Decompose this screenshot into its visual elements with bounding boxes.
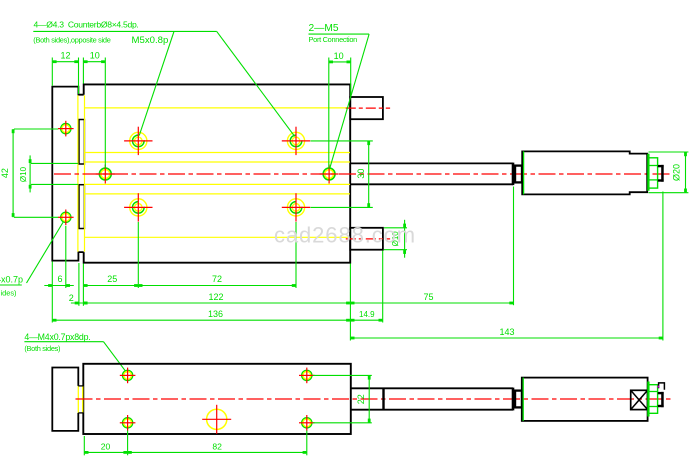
- svg-text:42: 42: [0, 168, 10, 178]
- ext v x513.5 bottom: [513, 187, 515, 306]
- boss bottom centerline: [346, 238, 390, 240]
- ext v x83.4 bottom: [82, 264, 84, 306]
- wrench flat diagonal 2: [631, 390, 648, 409]
- ext h 22 bottom: [313, 422, 372, 424]
- ext v x350 top: [350, 58, 352, 97]
- hidden edge yellow vertical right: [84, 95, 86, 252]
- dimension 10 left: [83, 61, 105, 63]
- dimension 20: [84, 451, 127, 453]
- lower rod top edge: [351, 387, 513, 389]
- ext h 42 top: [14, 128, 58, 130]
- hidden line y194: [85, 193, 351, 195]
- svg-text:75: 75: [423, 292, 433, 302]
- label underline x0.7p: [0, 284, 22, 286]
- label underline 1: [33, 30, 216, 32]
- svg-text:cad2688.com: cad2688.com: [274, 223, 416, 248]
- lower centerline: [76, 398, 673, 400]
- ext h 42 bottom: [14, 216, 58, 218]
- lower label underline: [24, 341, 103, 343]
- dimension 25: [83, 285, 138, 287]
- ext v x65 bottom: [65, 226, 67, 288]
- svg-text:136: 136: [208, 309, 223, 319]
- dimension 82: [128, 451, 307, 453]
- dimension 12: [52, 61, 78, 63]
- ext v x382.7 bottom: [382, 251, 384, 323]
- boss top: [350, 97, 383, 119]
- dimension dia10 boss: [404, 220, 406, 258]
- lower slot yellow left: [77, 386, 79, 413]
- ext v x52 top: [51, 58, 53, 86]
- svg-text:ides): ides): [1, 288, 17, 297]
- ext h boss d10 top: [384, 227, 407, 229]
- upper view plate outline: [52, 87, 83, 261]
- dimension 136: [52, 319, 350, 321]
- ext h 30 bottom: [311, 206, 373, 208]
- M5 counterbore hole A: [130, 132, 147, 149]
- ext v x78 top: [78, 58, 80, 94]
- upper view body outline: [84, 84, 351, 262]
- svg-text:–x0.7p: –x0.7p: [0, 275, 23, 285]
- dimension 2: [71, 302, 91, 304]
- M4 hole A: [123, 370, 133, 380]
- M5 port hole left: [99, 168, 111, 180]
- svg-text:10: 10: [90, 51, 100, 61]
- svg-text:M5x0.8p: M5x0.8p: [132, 35, 169, 46]
- wrench flat diagonal 1: [631, 390, 648, 409]
- M5 port hole right: [323, 168, 335, 180]
- lower tip vertical bar: [661, 392, 664, 407]
- lower coupling box: [513, 391, 522, 408]
- nut facet lower 1: [648, 391, 657, 393]
- nut facet upper 1: [648, 165, 657, 167]
- piston rod end: [512, 163, 515, 186]
- plate slot lower: [79, 185, 84, 229]
- ext v x105 to port: [104, 58, 106, 169]
- M4 hole B: [302, 370, 312, 380]
- svg-text:12: 12: [60, 51, 70, 61]
- nut outline lower view: [648, 385, 657, 414]
- svg-text:72: 72: [212, 274, 222, 284]
- lower body outline: [83, 364, 351, 434]
- ext v x78.9 bottom: [78, 263, 80, 306]
- M5 counterbore hole D: [287, 199, 304, 216]
- rod tip vertical bar: [661, 165, 664, 182]
- piston rod bottom edge: [350, 183, 513, 185]
- dimension 10 right: [329, 61, 351, 63]
- lower slot yellow right: [82, 386, 84, 413]
- M4 hole C: [123, 418, 133, 428]
- hidden line y184: [85, 183, 351, 185]
- svg-text:22: 22: [356, 394, 366, 404]
- plate hole upper: [61, 124, 71, 134]
- dimension 22: [368, 375, 370, 422]
- leader to hole B: [217, 31, 295, 136]
- svg-text:2—M5: 2—M5: [309, 23, 339, 34]
- driver cylinder outline: [522, 151, 647, 194]
- ext v x328 to port: [328, 58, 330, 168]
- label underline 2-M5: [309, 33, 370, 35]
- lower plate outline: [52, 368, 78, 431]
- dimension 30: [368, 141, 370, 208]
- dimension 75: [350, 302, 513, 304]
- dimension 143: [350, 337, 663, 339]
- leader 2-M5 to port hole: [330, 34, 370, 169]
- plate slot upper: [79, 120, 84, 165]
- svg-text:Ø20: Ø20: [672, 164, 682, 181]
- ext v x138 bottom: [137, 222, 139, 288]
- lower rod seam: [382, 388, 384, 409]
- ext v x83 top: [82, 58, 84, 84]
- lower tip bottom arm: [658, 405, 664, 407]
- dimension 122: [83, 302, 350, 304]
- leader 4-M4 to hole: [104, 342, 127, 373]
- nut facet upper 2: [648, 179, 657, 181]
- ext h boss d10 bottom: [384, 249, 407, 251]
- ext v x52 bottom: [51, 262, 53, 323]
- ext h 30 top: [311, 140, 373, 142]
- svg-text:Ø10: Ø10: [19, 166, 28, 182]
- M4 hole D: [302, 418, 312, 428]
- main centerline upper view: [54, 173, 671, 175]
- ext v x84 lower: [83, 436, 85, 455]
- dimension 72: [138, 285, 296, 287]
- green mate line at cylinder left: [523, 151, 525, 194]
- rod tip bottom arm: [658, 179, 664, 181]
- dimension dia20: [685, 152, 687, 193]
- svg-text:2: 2: [69, 293, 74, 303]
- ext h d20 top: [649, 151, 689, 153]
- svg-text:143: 143: [499, 327, 514, 337]
- svg-text:82: 82: [212, 441, 222, 451]
- ext h d20 bottom: [649, 192, 689, 194]
- boss top centerline: [346, 107, 390, 109]
- rod coupling box: [513, 166, 522, 183]
- hidden line y108: [85, 107, 351, 109]
- rod tip top arm: [658, 165, 664, 167]
- ext v x296 bottom: [295, 222, 297, 288]
- lower cylinder outline: [522, 378, 648, 421]
- leader x0.7p to plate hole: [27, 222, 64, 284]
- hidden line y162: [85, 161, 351, 163]
- svg-text:(Both sides),opposite side: (Both sides),opposite side: [33, 36, 110, 45]
- lower rod bottom edge: [351, 409, 513, 411]
- svg-text:4—Ø4.3 CounterbØ8×4.5dp.: 4—Ø4.3 CounterbØ8×4.5dp.: [34, 20, 139, 30]
- leader to hole A: [139, 31, 174, 135]
- svg-text:10: 10: [334, 51, 344, 61]
- svg-text:6: 6: [57, 274, 62, 284]
- tip hook: [659, 383, 665, 390]
- dimension 6: [44, 285, 74, 287]
- ext v x306 lower: [306, 431, 308, 456]
- center hole lower view: [207, 409, 227, 429]
- magenta dot: [657, 386, 659, 388]
- ext h 22 top: [313, 374, 372, 376]
- nut left edge lower view: [647, 382, 649, 417]
- piston rod top edge: [350, 162, 513, 164]
- lower coupling thick wall: [512, 390, 516, 409]
- svg-text:20: 20: [101, 441, 111, 451]
- dimension 14.9: [350, 319, 382, 321]
- nut outline upper view: [648, 158, 657, 188]
- nut facet lower 2: [648, 406, 657, 408]
- dimension dia10 rod: [29, 155, 31, 192]
- boss bottom: [350, 228, 383, 250]
- M5 counterbore hole C: [130, 199, 147, 216]
- ext h rod d10 bottom: [31, 183, 78, 185]
- hidden edge yellow vertical left: [77, 95, 79, 252]
- hidden line y237: [85, 236, 351, 238]
- svg-text:4—M4x0.7px8dp.: 4—M4x0.7px8dp.: [24, 332, 90, 342]
- svg-text:25: 25: [107, 274, 117, 284]
- lower slot black caps: [78, 385, 83, 387]
- svg-text:122: 122: [208, 292, 223, 302]
- hidden line y152: [85, 152, 351, 154]
- lower rod end: [512, 388, 515, 411]
- svg-text:(Both sides): (Both sides): [24, 344, 60, 353]
- ext h rod d10 top: [31, 162, 78, 164]
- svg-text:14.9: 14.9: [359, 310, 375, 319]
- ext v x127 lower: [127, 431, 129, 456]
- nut left edge upper view: [647, 154, 649, 191]
- M5 counterbore hole B: [287, 132, 304, 149]
- rod coupling thick wall: [512, 165, 516, 184]
- lower tip top arm: [658, 392, 664, 394]
- dimension 42: [12, 129, 14, 217]
- svg-text:30: 30: [356, 169, 366, 179]
- svg-text:Port Connection: Port Connection: [309, 35, 358, 44]
- green mate line lower cylinder: [522, 378, 524, 421]
- ext v x662.9 bottom: [662, 192, 664, 341]
- ext v x350 bottom: [349, 264, 351, 341]
- plate hole lower: [61, 212, 71, 222]
- wrench flat box: [631, 390, 648, 409]
